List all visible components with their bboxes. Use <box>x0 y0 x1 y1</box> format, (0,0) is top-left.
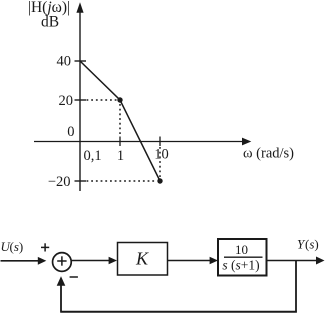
svg-text:dB: dB <box>41 14 59 31</box>
svg-text:1: 1 <box>117 148 124 164</box>
svg-text:20: 20 <box>59 93 74 109</box>
svg-text:(s): (s) <box>10 239 24 254</box>
wire: feedback bottom <box>60 311 297 313</box>
svg-text:ω (rad/s): ω (rad/s) <box>243 146 294 162</box>
Bode magnitude curve <box>80 61 160 181</box>
svg-text:K: K <box>135 249 149 269</box>
svg-text:s (s+1): s (s+1) <box>222 258 259 273</box>
tick 20 <box>75 99 87 101</box>
svg-text:10: 10 <box>154 147 169 163</box>
svg-text:10: 10 <box>235 242 248 257</box>
plus sign inside summing junction <box>57 256 66 265</box>
wire: feedback tap down <box>295 261 297 312</box>
y-axis <box>76 2 83 191</box>
wire: input to summing junction <box>1 260 40 262</box>
svg-text:40: 40 <box>57 54 72 70</box>
tick 40 <box>75 60 87 62</box>
wire: plant to output <box>267 260 319 262</box>
svg-text:0: 0 <box>67 124 74 140</box>
dotted line at w=10 <box>159 147 161 179</box>
x-axis <box>34 138 251 146</box>
plus sign above input <box>41 243 49 251</box>
dotted line -20 dB to w=10 <box>87 180 157 182</box>
breakpoint dot at (1,20) <box>117 97 122 102</box>
dotted line 20 dB to w=1 <box>87 99 118 101</box>
minus sign at feedback input <box>70 276 78 278</box>
dotted line w=1 down to axis <box>119 104 121 136</box>
svg-text:(s): (s) <box>305 237 319 252</box>
block 10/s(s+1) <box>218 239 267 276</box>
svg-text:−20: −20 <box>48 174 71 190</box>
summing junction <box>53 253 72 272</box>
wire: feedback up into summing junction <box>60 284 62 312</box>
block K <box>118 243 168 276</box>
wire: K to plant <box>168 260 212 262</box>
tick -20 <box>75 180 87 182</box>
tick 10 on x-axis <box>159 137 161 147</box>
svg-text:0,1: 0,1 <box>83 148 101 164</box>
wire: summing junction to K <box>72 260 110 262</box>
breakpoint dot at (10,-20) <box>157 178 162 183</box>
tick 1 on x-axis <box>119 137 121 147</box>
